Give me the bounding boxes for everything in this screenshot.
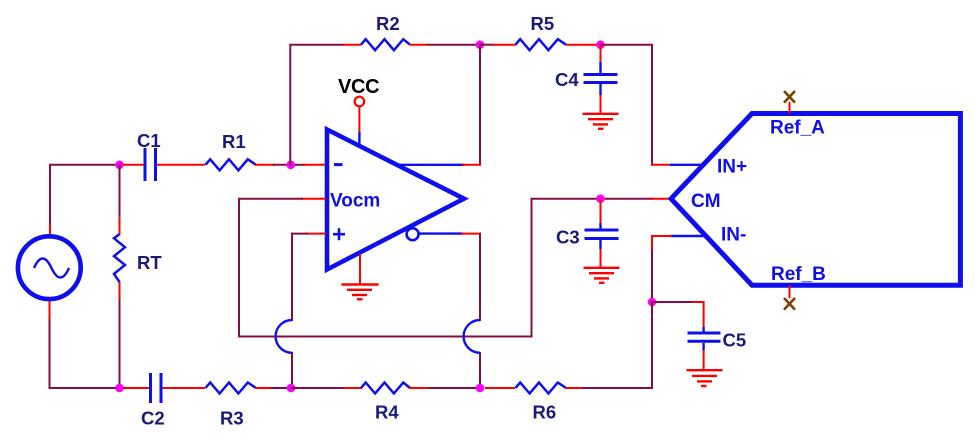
resistor R5 <box>516 39 567 50</box>
svg-text:C4: C4 <box>555 69 579 90</box>
svg-text:R2: R2 <box>376 13 400 34</box>
wire R3 to junction <box>256 387 291 389</box>
no-connect Ref_A stub <box>784 91 795 114</box>
op-amp inverting input mark <box>334 163 343 166</box>
ground below C4 <box>583 114 619 129</box>
power VCC <box>355 97 365 146</box>
wire node down to output <box>479 45 481 165</box>
wire non-inverting input leg <box>292 234 325 388</box>
svg-text:CM: CM <box>691 191 721 212</box>
node junction R4/R6 <box>476 384 485 393</box>
wire Vocm input <box>239 199 325 337</box>
wire C1 to R1 <box>157 164 205 166</box>
wire R6 to right column <box>566 387 652 389</box>
wire top right to IN+ <box>601 45 703 165</box>
wire CM line <box>532 198 670 200</box>
ground below op-amp <box>342 254 379 299</box>
svg-text:Vocm: Vocm <box>330 191 380 212</box>
capacitor C2 <box>151 373 162 403</box>
svg-text:R1: R1 <box>222 131 246 152</box>
no-connect Ref_B stub <box>784 285 795 309</box>
capacitor C5 <box>688 327 721 369</box>
capacitor C4 <box>584 45 618 113</box>
wire R2 right stub <box>410 44 428 46</box>
resistor R3 <box>206 383 257 394</box>
ground below C5 <box>687 370 723 386</box>
wire R5 left stub <box>480 44 515 46</box>
wire C5 branch <box>652 302 704 327</box>
svg-text:C3: C3 <box>556 227 580 248</box>
wire IN- leg <box>652 236 705 302</box>
wire R2 to node <box>428 44 480 46</box>
wire hop arc left <box>276 320 292 353</box>
svg-text:C1: C1 <box>137 130 161 151</box>
resistor R6 <box>516 383 567 394</box>
wire upper output <box>398 164 480 166</box>
wire C2 left stub <box>123 387 149 389</box>
svg-text:R6: R6 <box>533 402 557 423</box>
ADC input polygon <box>671 114 960 286</box>
wire source bottom column <box>50 302 120 388</box>
svg-text:IN+: IN+ <box>717 157 747 178</box>
wire junction to R6 <box>485 387 515 389</box>
op-amp U1 triangle <box>327 130 464 270</box>
resistor R1 <box>206 159 257 170</box>
node junction top-left <box>115 161 124 170</box>
node junction IN-/C5 <box>648 298 657 307</box>
wire R2 feedback loop left leg <box>290 45 343 165</box>
wire RT column <box>119 165 121 388</box>
svg-text:VCC: VCC <box>338 76 379 98</box>
node junction R2/R5/output <box>476 40 485 49</box>
wire R5 right stub <box>566 44 598 46</box>
resistor R2 <box>361 39 410 50</box>
voltage source V1 <box>18 236 81 299</box>
wire lower output <box>419 234 480 388</box>
wire R4 to junction <box>410 387 480 389</box>
resistor RT <box>114 234 125 282</box>
op-amp output bubble <box>407 228 419 240</box>
node junction bottom-left <box>115 384 124 393</box>
svg-text:IN-: IN- <box>721 225 746 246</box>
wire IN- to bottom row <box>651 302 653 388</box>
resistor R4 <box>361 383 410 394</box>
node junction at inverting input <box>286 161 295 170</box>
svg-text:C2: C2 <box>141 408 165 429</box>
wire R2 left stub <box>343 44 361 46</box>
svg-text:Ref_A: Ref_A <box>770 118 825 139</box>
capacitor C1 <box>145 148 156 181</box>
wire Vocm to CM crossover run <box>239 199 532 337</box>
wire junction to R4 <box>291 387 361 389</box>
wire C2 to R3 <box>163 387 206 389</box>
svg-text:C5: C5 <box>723 330 747 351</box>
node junction R5/C4 <box>596 40 605 49</box>
svg-text:R3: R3 <box>220 408 244 429</box>
wire R1 to inverting input <box>256 164 325 166</box>
capacitor C3 <box>585 199 619 267</box>
node junction R3/R4 <box>287 384 296 393</box>
svg-text:Ref_B: Ref_B <box>771 264 826 285</box>
svg-text:R4: R4 <box>375 402 399 423</box>
ground below C3 <box>584 268 620 283</box>
svg-text:R5: R5 <box>531 13 555 34</box>
wire hop arc right <box>464 320 480 353</box>
svg-text:RT: RT <box>137 252 162 273</box>
wire C1 left stub <box>123 164 144 166</box>
op-amp non-inverting input mark <box>333 228 345 240</box>
node junction CM/C3 <box>596 194 605 203</box>
wire source top column <box>50 165 120 234</box>
